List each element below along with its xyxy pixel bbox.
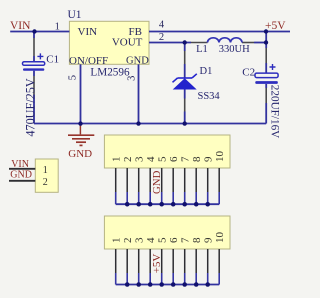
svg-text:2: 2 (43, 177, 48, 188)
svg-text:SS34: SS34 (198, 91, 221, 102)
svg-text:330UH: 330UH (219, 44, 250, 55)
svg-text:7: 7 (179, 156, 191, 162)
svg-text:4: 4 (159, 20, 165, 31)
svg-text:L1: L1 (196, 44, 208, 55)
svg-text:1: 1 (110, 157, 122, 163)
svg-text:GND: GND (151, 170, 163, 194)
svg-text:VOUT: VOUT (112, 37, 143, 49)
svg-text:VIN: VIN (10, 20, 31, 32)
svg-text:2: 2 (159, 32, 164, 43)
svg-text:10: 10 (214, 232, 226, 244)
svg-text:+5V: +5V (151, 254, 163, 274)
svg-text:220UF/16V: 220UF/16V (269, 85, 281, 138)
svg-text:6: 6 (168, 156, 180, 162)
svg-text:4: 4 (145, 237, 157, 243)
svg-text:6: 6 (168, 237, 180, 243)
svg-text:8: 8 (191, 237, 203, 243)
svg-text:10: 10 (214, 151, 226, 163)
svg-text:VIN: VIN (11, 159, 29, 170)
svg-text:3: 3 (133, 156, 145, 162)
svg-text:GND: GND (10, 170, 32, 181)
svg-text:1: 1 (55, 21, 60, 32)
svg-text:2: 2 (122, 157, 134, 163)
svg-text:C2: C2 (242, 66, 255, 78)
svg-text:ON/OFF: ON/OFF (69, 55, 108, 67)
svg-text:3: 3 (133, 237, 145, 243)
svg-text:9: 9 (202, 156, 214, 162)
svg-text:5: 5 (156, 237, 168, 243)
svg-text:5: 5 (67, 75, 78, 80)
svg-text:GND: GND (68, 148, 92, 160)
svg-text:VIN: VIN (78, 26, 98, 38)
svg-text:4: 4 (145, 156, 157, 162)
svg-text:5: 5 (156, 156, 168, 162)
svg-text:7: 7 (179, 237, 191, 243)
svg-text:1: 1 (110, 238, 122, 244)
svg-text:+5V: +5V (265, 20, 286, 32)
svg-text:3: 3 (126, 76, 137, 81)
svg-text:1: 1 (43, 165, 48, 176)
svg-text:D1: D1 (200, 66, 213, 77)
svg-text:470UF/25V: 470UF/25V (23, 78, 37, 136)
svg-text:GND: GND (126, 56, 149, 67)
svg-text:LM2596: LM2596 (90, 67, 130, 79)
svg-text:2: 2 (122, 238, 134, 244)
svg-text:8: 8 (191, 156, 203, 162)
svg-text:9: 9 (202, 237, 214, 243)
svg-text:C1: C1 (46, 54, 59, 66)
svg-text:U1: U1 (68, 9, 82, 21)
